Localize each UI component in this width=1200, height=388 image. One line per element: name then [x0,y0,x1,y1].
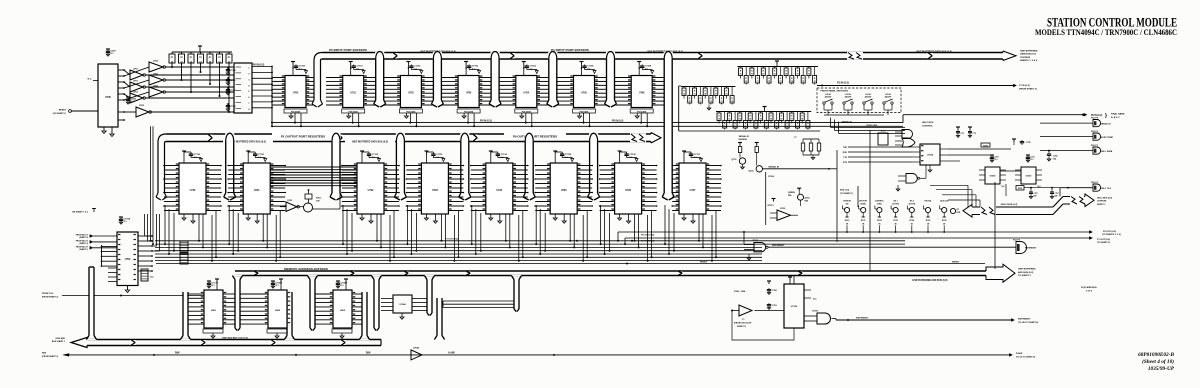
svg-text:RTS: RTS [843,162,848,164]
svg-text:FL(P)-ARROW-A: FL(P)-ARROW-A [1081,286,1097,289]
svg-text:(FROM SHEET 3): (FROM SHEET 3) [1019,88,1037,90]
svg-text:INTVCNT: INTVCNT [859,201,868,203]
svg-text:C7104: C7104 [530,65,537,68]
svg-text:P0 INPUT PORT BUFFERS: P0 INPUT PORT BUFFERS [329,48,367,52]
svg-text:FROM U40-17: FROM U40-17 [76,245,88,248]
svg-text:Q753: Q753 [287,200,293,202]
svg-text:N.C.: N.C. [813,299,817,301]
svg-text:74: 74 [765,125,767,128]
svg-text:P1 OUT (0:2): P1 OUT (0:2) [641,241,654,243]
svg-text:LED: LED [957,212,961,214]
svg-text:C756: C756 [1026,142,1031,144]
svg-text:74: 74 [785,73,787,76]
svg-text:77: 77 [791,119,793,121]
svg-text:RST/RESET: RST/RESET [1018,318,1031,320]
svg-text:72: 72 [739,119,741,121]
svg-text:72: 72 [710,101,712,103]
svg-text:RESET: RESET [59,110,67,112]
svg-text:CTS: CTS [843,157,848,159]
svg-text:U902: U902 [275,310,281,312]
svg-text:RX FAIL: RX FAIL [925,200,933,203]
svg-text:U701: U701 [133,80,139,82]
svg-text:R722: R722 [877,220,882,222]
svg-text:U701: U701 [133,91,139,93]
svg-text:(ON SHEET 1): (ON SHEET 1) [53,113,67,115]
svg-text:U725: U725 [561,189,567,192]
svg-text:U703: U703 [125,259,131,261]
svg-text:N.C.: N.C. [88,79,93,81]
svg-text:ADJUST: ADJUST [845,96,853,99]
svg-text:74: 74 [731,100,733,103]
svg-text:U705: U705 [581,93,587,95]
svg-text:FRONT PANEL SWITCHES: FRONT PANEL SWITCHES [821,90,849,93]
svg-text:P0S DATA: P0S DATA [349,110,359,113]
svg-text:P0S DATA: P0S DATA [637,110,647,113]
svg-text:U700: U700 [105,96,111,99]
svg-text:U7102: U7102 [752,240,759,242]
svg-text:MODELS TTN4094C / TRN7900C / C: MODELS TTN4094C / TRN7900C / CLN4686C [1035,28,1177,37]
svg-text:71: 71 [699,101,701,103]
svg-text:P0S DATA: P0S DATA [464,110,474,113]
svg-text:MODEM: MODEM [739,139,747,141]
svg-text:HSIF BUFFERED: HSIF BUFFERED [1020,51,1038,53]
svg-text:R A/W: R A/W [1016,352,1023,355]
svg-text:P0 OUT (0:2): P0 OUT (0:2) [1103,231,1116,233]
svg-text:(TO U6-172 SHEET 4): (TO U6-172 SHEET 4) [1018,321,1038,324]
svg-text:HDLC CLK: HDLC CLK [1101,188,1112,190]
svg-text:TO/FROM: TO/FROM [1020,57,1030,59]
svg-text:U724: U724 [496,189,502,192]
svg-text:68P81090E02-B: 68P81090E02-B [1138,352,1174,358]
svg-text:SHEET 1): SHEET 1) [737,326,746,328]
svg-text:75: 75 [770,119,772,121]
svg-text:N.C.: N.C. [1002,186,1006,188]
svg-text:R/W: R/W [42,353,46,355]
svg-text:P0S DATA: P0S DATA [291,110,301,113]
svg-text:P1 IN (0:2): P1 IN (0:2) [837,82,849,85]
svg-text:HSIF BUFFERED ADD BUS (0:2): HSIF BUFFERED ADD BUS (0:2) [913,279,948,282]
svg-text:73: 73 [749,119,751,121]
svg-text:SERIAL ID: SERIAL ID [1101,123,1112,126]
svg-text:ADJUST: ADJUST [885,96,893,99]
svg-text:ADJUST: ADJUST [825,96,833,99]
svg-text:HSIF ADD BUS OUT (0:2): HSIF ADD BUS OUT (0:2) [222,337,248,340]
svg-text:U903: U903 [340,310,346,312]
svg-text:U701: U701 [350,93,356,95]
svg-text:FROM U40-17: FROM U40-17 [76,234,88,237]
svg-text:C7136: C7136 [629,154,636,156]
svg-text:C7100: C7100 [299,66,306,68]
svg-text:74: 74 [725,93,727,96]
svg-text:TXD: TXD [843,147,848,149]
svg-text:C7132: C7132 [372,154,379,156]
svg-text:RX 2: RX 2 [910,201,914,203]
svg-text:U704: U704 [524,92,530,95]
svg-text:U702: U702 [408,93,414,95]
svg-text:76: 76 [808,74,810,76]
svg-text:1035/99-UP: 1035/99-UP [1148,366,1175,372]
svg-text:(SHEET 3): (SHEET 3) [79,243,88,245]
svg-text:RXD: RXD [843,152,848,154]
svg-text:U727: U727 [690,189,696,192]
svg-text:CONTROL: CONTROL [922,126,933,128]
svg-text:U702: U702 [153,60,159,62]
svg-text:75: 75 [776,126,778,128]
svg-text:U7045: U7045 [413,346,420,349]
svg-text:U708: U708 [780,208,786,210]
svg-text:}: } [1105,113,1107,119]
svg-text:C7134: C7134 [501,153,508,156]
svg-text:71: 71 [694,94,696,96]
svg-text:78: 78 [807,126,809,128]
svg-text:(FROM SHEET 1): (FROM SHEET 1) [42,296,58,298]
svg-text:P0 OUTPUT PORT REGISTERS: P0 OUTPUT PORT REGISTERS [513,134,557,138]
svg-text:HDLC BUS (0:2): HDLC BUS (0:2) [1001,204,1018,206]
svg-text:U7044: U7044 [400,303,407,306]
svg-text:U726: U726 [625,189,631,192]
svg-text:P1 IN (0:2): P1 IN (0:2) [1019,85,1030,87]
svg-text:U723: U723 [432,189,438,192]
svg-text:72: 72 [704,94,706,96]
svg-text:76: 76 [786,126,788,128]
svg-text:C750: C750 [1053,155,1058,157]
svg-text:TX/RX UPW: TX/RX UPW [866,125,877,127]
svg-text:U7101: U7101 [812,311,819,313]
svg-text:71: 71 [734,126,736,128]
svg-text:SHEET 3: SHEET 3 [1097,204,1106,206]
svg-text:P0S DATA: P0S DATA [522,110,532,113]
svg-text:(FROM OSC/CLKP: (FROM OSC/CLKP [734,323,752,325]
svg-text:XTAL_7404: XTAL_7404 [734,290,746,293]
svg-text:ON SHEET 1 & 3: ON SHEET 1 & 3 [72,212,89,214]
svg-text:72: 72 [745,126,747,128]
svg-text:R726: R726 [942,220,947,222]
svg-text:A, B & C: A, B & C [1111,116,1120,119]
svg-text:U901: U901 [211,310,217,312]
svg-text:HDLC BUS (0:2): HDLC BUS (0:2) [1097,197,1112,199]
svg-text:U701: U701 [133,68,139,70]
svg-text:PLD P0: PLD P0 [1091,118,1099,120]
svg-text:70: 70 [683,94,685,96]
svg-text:R754: R754 [1018,187,1022,190]
svg-text:10K: 10K [316,201,320,203]
svg-text:C7105: C7105 [587,66,594,68]
svg-text:HSIF BUFFERED: HSIF BUFFERED [1018,269,1036,271]
svg-text:C7137: C7137 [694,154,701,156]
svg-text:PLD P2: PLD P2 [1091,131,1099,133]
svg-text:(TO SHEETS 3, 5, 6): (TO SHEETS 3, 5, 6) [1102,234,1121,236]
svg-text:PROM CS-L: PROM CS-L [42,293,54,295]
svg-text:TO SHEET 3: TO SHEET 3 [1018,275,1032,277]
svg-text:C7103: C7103 [472,66,479,68]
svg-text:76: 76 [814,81,816,83]
svg-text:70: 70 [718,119,720,121]
svg-text:HSIF ADD: HSIF ADD [56,337,66,340]
svg-text:U700: U700 [293,93,299,95]
svg-text:Q752: Q752 [749,171,755,173]
svg-text:STATION: STATION [843,200,851,203]
svg-text:73: 73 [774,74,776,76]
svg-text:P1 OUTPUT PORT REGISTERS: P1 OUTPUT PORT REGISTERS [281,134,325,138]
svg-text:C75: C75 [960,133,963,135]
svg-text:P1 INPUT PORT BUFFERS: P1 INPUT PORT BUFFERS [551,48,589,52]
svg-text:A A/W: A A/W [448,351,455,354]
svg-text:(TO SHEET 2): (TO SHEET 2) [1097,242,1110,244]
svg-text:76: 76 [780,119,782,121]
svg-text:R725: R725 [926,220,931,222]
svg-text:70: 70 [724,126,726,128]
svg-text:73: 73 [721,101,723,103]
svg-text:PLD P0: PLD P0 [1013,239,1021,241]
svg-text:71: 71 [751,74,753,76]
svg-text:C7135: C7135 [565,154,572,156]
svg-text:SHEETS 1, 2 & 4: SHEETS 1, 2 & 4 [1020,59,1038,62]
svg-text:RESET: RESET [952,262,960,264]
svg-text:(SHEET 3): (SHEET 3) [79,237,88,239]
svg-text:HDLC DATA: HDLC DATA [1101,150,1113,153]
svg-text:R7SN: R7SN [983,145,988,147]
svg-text:(Sheet 4 of 10): (Sheet 4 of 10) [1142,358,1174,365]
svg-text:U7100: U7100 [791,306,798,308]
svg-text:75: 75 [802,81,804,83]
svg-text:U7509: U7509 [1026,176,1032,178]
svg-text:RST/RESET: RST/RESET [772,245,785,247]
svg-text:C7101: C7101 [357,66,364,68]
svg-text:ACTIVE: ACTIVE [909,202,916,205]
svg-text:Q7: Q7 [957,209,960,211]
svg-text:RX 1: RX 1 [894,201,898,203]
svg-text:70: 70 [740,74,742,76]
svg-text:P0 IN (0:2): P0 IN (0:2) [480,120,492,123]
svg-text:72: 72 [762,74,764,76]
svg-text:SERIAL ID: SERIAL ID [768,165,779,168]
svg-text:P0 IN (0:2): P0 IN (0:2) [612,121,623,123]
svg-text:R723: R723 [893,220,898,222]
svg-text:HSIF BUFFERED DATA BUS (0:2): HSIF BUFFERED DATA BUS (0:2) [916,50,952,53]
svg-text:U7508: U7508 [990,176,996,178]
svg-text:70: 70 [745,81,747,83]
svg-text:78: 78 [801,119,803,121]
svg-text:R721: R721 [861,220,866,222]
svg-text:C7133: C7133 [436,154,443,156]
svg-text:77: 77 [797,126,799,128]
svg-text:CONTROL: CONTROL [875,201,885,203]
svg-text:MODE: MODE [860,203,866,205]
svg-text:72: 72 [768,81,770,83]
svg-text:C7106: C7106 [645,66,652,68]
svg-text:P0S DATA: P0S DATA [579,110,589,113]
svg-text:(TO U7-12 SHEET 4): (TO U7-12 SHEET 4) [1016,355,1035,358]
svg-text:BUS SHEET 1: BUS SHEET 1 [52,341,66,343]
svg-text:P0 OUT (0:2): P0 OUT (0:2) [641,234,654,236]
svg-text:RESET: RESET [700,262,708,264]
svg-text:R7060: R7060 [768,176,774,178]
svg-text:SERIAL ID: SERIAL ID [739,135,750,138]
svg-text:PLD P1: PLD P1 [1091,145,1099,147]
svg-text:TO/FROM: TO/FROM [1097,201,1107,203]
svg-text:GREEN: GREEN [788,192,795,194]
svg-text:(FROM SHEET 1): (FROM SHEET 1) [42,356,58,358]
svg-text:(TO SHEET 1): (TO SHEET 1) [840,193,853,195]
svg-text:HDLC BUS: HDLC BUS [922,122,934,124]
svg-text:74: 74 [791,80,793,83]
svg-text:71: 71 [757,81,759,83]
svg-text:U702: U702 [139,105,145,107]
svg-text:C75: C75 [972,133,975,135]
svg-text:P1 OUT (0:2): P1 OUT (0:2) [445,239,458,241]
svg-text:RST/RESET: RST/RESET [1025,248,1037,250]
svg-text:Q751: Q751 [732,159,738,161]
svg-text:C7102: C7102 [414,66,421,68]
svg-text:ADJUST: ADJUST [865,96,873,99]
svg-text:P0S DATA: P0S DATA [406,110,416,113]
svg-text:R720: R720 [845,220,850,222]
svg-text:2 OF 5: 2 OF 5 [1086,290,1093,292]
svg-text:73: 73 [755,126,757,128]
svg-text:MODT TEMP: MODT TEMP [1101,137,1114,139]
svg-text:DATA BUS (0:7): DATA BUS (0:7) [1020,53,1036,56]
svg-text:HSIF BUFFERED DATA BUS (0:2): HSIF BUFFERED DATA BUS (0:2) [230,140,266,143]
svg-text:R7513: R7513 [768,205,775,207]
svg-text:U7504: U7504 [927,154,934,157]
svg-text:HSIF BUFFERED DATA BUS (0:2): HSIF BUFFERED DATA BUS (0:2) [352,140,388,143]
svg-text:P1 OUT (0:2): P1 OUT (0:2) [1097,239,1110,241]
svg-text:(SHEET 1): (SHEET 1) [79,249,88,251]
svg-text:U722: U722 [368,189,374,192]
svg-text:N.C.: N.C. [150,277,155,279]
svg-text:ADD BUS (0:2): ADD BUS (0:2) [1018,271,1033,274]
svg-text:SERIAL ID: SERIAL ID [842,121,853,124]
svg-text:U703: U703 [466,93,472,95]
svg-text:U720: U720 [190,189,196,192]
svg-text:FINAL NAME: FINAL NAME [1111,113,1125,116]
svg-text:C7131: C7131 [258,154,265,156]
svg-text:PLD P1: PLD P1 [1091,182,1099,184]
svg-text:U706: U706 [639,93,645,95]
svg-text:73: 73 [715,94,717,96]
svg-text:FROM U40-17: FROM U40-17 [76,240,88,243]
svg-text:71: 71 [728,119,730,121]
svg-text:ACTIVE: ACTIVE [892,202,899,205]
svg-text:74: 74 [760,118,762,121]
svg-text:73: 73 [779,81,781,83]
svg-text:70: 70 [689,101,691,103]
svg-text:C7130: C7130 [194,154,201,156]
svg-text:RXD (1:4): RXD (1:4) [840,189,849,192]
svg-text:75: 75 [797,74,799,76]
svg-text:AUX LED: AUX LED [940,200,949,203]
svg-text:U721: U721 [254,189,260,192]
svg-text:RST/RESET: RST/RESET [856,318,869,320]
